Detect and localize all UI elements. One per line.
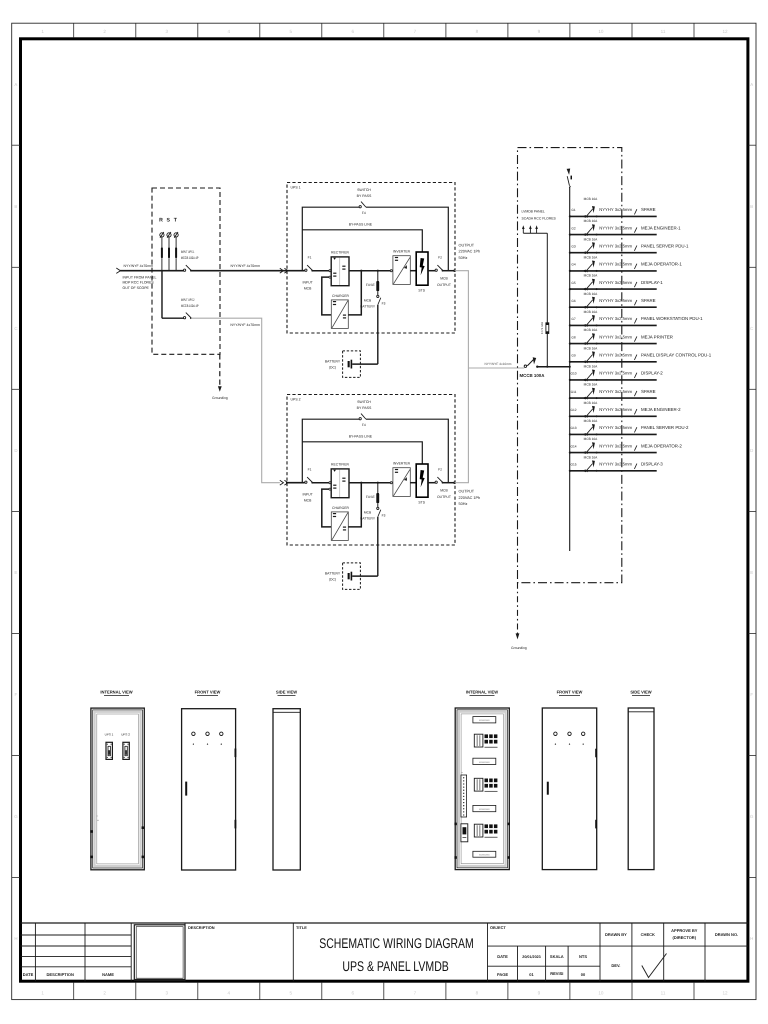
svg-text:MCCB 100A: MCCB 100A [520, 373, 546, 378]
svg-text:OUT OF SCOPE: OUT OF SCOPE [123, 286, 150, 290]
wire rectifier tap to charger [329, 276, 331, 278]
svg-text:F: F [15, 692, 18, 697]
grounding lead MDP [219, 354, 221, 387]
svg-text:G: G [14, 814, 18, 819]
svg-text:G3: G3 [571, 245, 575, 249]
breaker G10 [584, 379, 586, 381]
wire inverter to sts [410, 270, 415, 272]
node G8 on bus [569, 343, 571, 345]
svg-text:MCB: MCB [304, 287, 312, 291]
svg-text:F.1 S 16A: F.1 S 16A [540, 322, 544, 334]
wire F1 to rectifier [312, 482, 329, 484]
svg-text:FRONT VIEW: FRONT VIEW [195, 689, 221, 694]
label strip [473, 805, 496, 811]
fuse R [161, 237, 163, 247]
node G10 on bus [569, 379, 571, 381]
svg-text:5: 5 [290, 991, 293, 996]
svg-text:FRONT VIEW: FRONT VIEW [557, 689, 583, 694]
svg-text:S: S [166, 217, 170, 223]
svg-text:DESCRIPTION: DESCRIPTION [188, 925, 215, 930]
breaker MCCB 100A [524, 365, 526, 367]
breaker cluster [474, 824, 483, 837]
svg-text:12: 12 [722, 991, 728, 996]
svg-text:G4: G4 [571, 263, 575, 267]
svg-text:10: 10 [598, 29, 604, 34]
wire rectifier tap to charger [329, 488, 331, 490]
svg-text:INPUT UPS 1: INPUT UPS 1 [181, 250, 195, 254]
svg-text:MCB 16A: MCB 16A [584, 274, 599, 278]
svg-text:MCB 16A: MCB 16A [584, 455, 599, 459]
svg-text:REVISI: REVISI [550, 971, 563, 976]
svg-text:OUTPUT: OUTPUT [459, 490, 475, 494]
svg-text:10: 10 [598, 991, 604, 996]
svg-text:11: 11 [661, 991, 666, 996]
wire charger output to dc bus [348, 271, 361, 315]
node G3 on bus [569, 252, 571, 254]
wire UPS1 output gray [455, 271, 469, 368]
gland line [97, 819, 99, 821]
svg-text:BY PASS: BY PASS [357, 194, 372, 198]
phase slash G12 [634, 409, 637, 414]
svg-text:MCB 16A: MCB 16A [584, 365, 599, 369]
svg-text:G1: G1 [571, 208, 575, 212]
wire phase S leg [168, 258, 170, 271]
LVMDB cabinet side view [628, 708, 654, 870]
svg-text:MCB 16A: MCB 16A [584, 310, 599, 314]
svg-text:DATE: DATE [23, 972, 34, 977]
svg-text:NYYHY 3x2.5mm: NYYHY 3x2.5mm [599, 371, 632, 376]
svg-text:F2: F2 [438, 256, 442, 260]
wire F2 to output node [443, 270, 455, 272]
logo box [134, 925, 185, 980]
wire MCCB to bus [537, 366, 569, 368]
svg-text:MCB: MCB [440, 489, 448, 493]
phase symbol R [160, 233, 164, 237]
node G7 on bus [569, 324, 571, 326]
svg-text:SPARE: SPARE [641, 389, 656, 394]
svg-text:MCB 16A: MCB 16A [584, 401, 599, 405]
svg-text:UPS & PANEL LVMDB: UPS & PANEL LVMDB [342, 958, 449, 974]
MDP panel dashed box [152, 188, 220, 354]
breaker module front [123, 742, 129, 759]
svg-text:UPS 2: UPS 2 [121, 732, 130, 736]
svg-text:PANEL SERVER PDU-1: PANEL SERVER PDU-1 [641, 244, 689, 249]
breaker module front [106, 742, 112, 759]
svg-text:UPS 2: UPS 2 [291, 397, 301, 401]
svg-text:G5: G5 [571, 281, 575, 285]
wire G5 [570, 288, 657, 290]
svg-text:PANEL SERVER PDU-2: PANEL SERVER PDU-2 [641, 425, 689, 430]
svg-text:NYYHY 3x2.5mm: NYYHY 3x2.5mm [599, 407, 632, 412]
label strip [473, 758, 496, 764]
wire MDP to UPS1 [191, 270, 305, 272]
svg-text:MCB 16A: MCB 16A [584, 328, 599, 332]
svg-text:G12: G12 [570, 408, 576, 412]
svg-text:BY-PASS LINE: BY-PASS LINE [349, 223, 373, 227]
svg-text:SIDE VIEW: SIDE VIEW [630, 689, 651, 694]
svg-text:8: 8 [476, 991, 479, 996]
svg-text:DISPLAY-1: DISPLAY-1 [641, 280, 663, 285]
svg-text:PANEL DISPLAY CONTROL PDU-1: PANEL DISPLAY CONTROL PDU-1 [641, 353, 712, 358]
svg-text:12: 12 [722, 29, 728, 34]
battery (DC) UPS 2 [343, 563, 361, 590]
wire scada riser [546, 233, 548, 323]
wire phase T leg [175, 258, 177, 271]
svg-text:OBJECT: OBJECT [490, 925, 506, 930]
svg-text:G14: G14 [570, 444, 576, 448]
switch F4 UPS 2 [359, 418, 361, 420]
wire charger output to dc bus [348, 483, 361, 527]
svg-text:SPARE: SPARE [641, 207, 656, 212]
wire junction chevrons UPS1 [280, 268, 284, 273]
svg-text:XXXXXXXX: XXXXXXXX [479, 761, 490, 764]
phase slash G2 [634, 227, 637, 232]
svg-text:NYY/NYF 4x16mm: NYY/NYF 4x16mm [485, 362, 512, 366]
wire phase R leg [161, 258, 163, 318]
svg-text:INPUT: INPUT [303, 280, 313, 284]
svg-text:220VAC 1Ph: 220VAC 1Ph [459, 250, 481, 254]
title block top line [21, 922, 748, 924]
svg-text:INVERTER: INVERTER [393, 250, 411, 254]
svg-text:G: G [750, 814, 754, 819]
wire junction chevrons UPS2 [280, 480, 284, 485]
svg-text:50Hz: 50Hz [459, 502, 468, 506]
wire G6 [570, 306, 657, 308]
svg-text:F4: F4 [362, 423, 366, 427]
svg-text:STS: STS [418, 288, 425, 292]
svg-text:NYYHY 3x2.5mm: NYYHY 3x2.5mm [599, 334, 632, 339]
wire G15 [570, 470, 657, 472]
svg-text:NYYHY 3x2.5mm: NYYHY 3x2.5mm [599, 207, 632, 212]
svg-text:MEJA OPERATOR-2: MEJA OPERATOR-2 [641, 443, 682, 448]
UPS 1 dashed box [287, 183, 455, 334]
phase slash G1 [634, 209, 637, 214]
svg-text:11: 11 [661, 29, 666, 34]
svg-text:FUSE: FUSE [366, 283, 376, 287]
incoming breaker on bus top [567, 176, 569, 186]
cabinet hinges [90, 830, 92, 833]
breaker G11 [584, 397, 586, 399]
breaker G3 [584, 252, 586, 254]
wire feeder to switch [120, 270, 184, 272]
svg-text:E: E [14, 570, 17, 575]
LVMDB panel dash-dot box [518, 148, 622, 583]
svg-text:BATTERY: BATTERY [325, 360, 341, 364]
title cell [292, 923, 294, 981]
svg-text:MEJA PRINTER: MEJA PRINTER [641, 334, 673, 339]
wire sts to F2 [428, 270, 435, 272]
svg-text:FUSE: FUSE [366, 495, 376, 499]
svg-text:MCB 16A: MCB 16A [584, 292, 599, 296]
svg-text:3: 3 [166, 991, 169, 996]
phase slash G3 [634, 246, 637, 251]
fuse battery UPS 1 [377, 270, 379, 272]
svg-text:CHECK: CHECK [641, 932, 655, 937]
node G6 on bus [569, 306, 571, 308]
svg-text:RECTIFIER: RECTIFIER [331, 463, 349, 467]
wire G13 [570, 433, 657, 435]
phase slash G11 [634, 391, 637, 396]
svg-text:G2: G2 [571, 226, 575, 230]
svg-text:NYYHY 3x2.5mm: NYYHY 3x2.5mm [599, 244, 632, 249]
svg-text:MCB 16A: MCB 16A [584, 346, 599, 350]
svg-text:SIDE VIEW: SIDE VIEW [276, 689, 297, 694]
description cell [184, 923, 186, 981]
phase slash G6 [634, 300, 637, 305]
wire battery to fuse riser [352, 363, 378, 365]
node G5 on bus [569, 288, 571, 290]
wire F1 to rectifier [312, 270, 329, 272]
svg-text:MCB: MCB [440, 277, 448, 281]
svg-text:XXXXXXXX: XXXXXXXX [479, 854, 490, 857]
phase slash G15 [634, 464, 637, 469]
wire inverter to sts [410, 482, 415, 484]
incoming feeder arrow [116, 268, 120, 273]
battery (DC) UPS 1 [343, 351, 361, 378]
svg-text:G11: G11 [571, 390, 577, 394]
svg-text:SWITCH: SWITCH [357, 400, 371, 404]
UPS cabinet side view [273, 709, 300, 870]
static transfer switch STS UPS 2 [416, 464, 428, 497]
svg-text:SCADA RCC FLORES: SCADA RCC FLORES [522, 216, 557, 220]
svg-text:A: A [750, 82, 753, 87]
svg-text:DRAWN NO.: DRAWN NO. [715, 932, 738, 937]
breaker G2 [584, 234, 586, 236]
node G14 on bus [569, 452, 571, 454]
svg-text:3: 3 [166, 29, 169, 34]
label strip [473, 717, 496, 723]
svg-text:INPUT: INPUT [303, 492, 313, 496]
wire G11 [570, 397, 657, 399]
wire combined to LVMDB [468, 367, 524, 369]
svg-text:NTS: NTS [579, 954, 587, 959]
svg-text:(DIRECTOR): (DIRECTOR) [673, 935, 697, 940]
fuse battery UPS 2 [377, 482, 379, 484]
svg-text:(DC): (DC) [329, 578, 336, 582]
breaker G13 [584, 433, 586, 435]
svg-text:OUTPUT: OUTPUT [437, 495, 451, 499]
wire UPS2 output gray [455, 368, 469, 483]
switch INPUT UPS 1 [184, 269, 186, 271]
svg-text:INTERNAL VIEW: INTERNAL VIEW [100, 689, 132, 694]
svg-text:CHARGER: CHARGER [332, 506, 350, 510]
node G2 on bus [569, 234, 571, 236]
UPS cabinet front view [182, 709, 236, 870]
svg-text:G10: G10 [570, 372, 576, 376]
output node UPS 1 [453, 269, 456, 272]
svg-text:F2: F2 [438, 468, 442, 472]
phase slash G10 [634, 373, 637, 378]
svg-text:BY-PASS LINE: BY-PASS LINE [349, 435, 373, 439]
output node UPS 2 [453, 481, 456, 484]
ruler row ticks [12, 144, 20, 146]
svg-text:XXXXXXXX: XXXXXXXX [479, 719, 490, 722]
fuse F.1 [546, 323, 549, 334]
wire rectifier to inverter [349, 270, 390, 272]
svg-text:NYY/NYF 4x70mm: NYY/NYF 4x70mm [231, 264, 261, 268]
svg-text:DATE: DATE [497, 954, 508, 959]
wire G10 [570, 379, 657, 381]
phase slash G7 [634, 318, 637, 323]
svg-text:1: 1 [41, 991, 44, 996]
wire bypass top line [302, 419, 359, 483]
svg-text:UPS 1: UPS 1 [291, 185, 301, 189]
drawn by / check / approve columns [599, 923, 601, 981]
phase slash G14 [634, 445, 637, 450]
ruler column ticks [73, 23, 75, 37]
wire battery to fuse riser [352, 575, 378, 577]
svg-text:F1: F1 [308, 256, 312, 260]
svg-text:MCB: MCB [304, 499, 312, 503]
svg-text:H: H [750, 936, 753, 941]
breaker cluster [474, 778, 483, 791]
switch F3 UPS 2 [377, 507, 379, 509]
svg-text:BATTERY: BATTERY [360, 305, 376, 309]
static transfer switch STS UPS 1 [416, 252, 428, 285]
wire to battery [377, 517, 379, 577]
svg-text:2: 2 [103, 991, 106, 996]
LVMDB cabinet internal view [455, 708, 509, 870]
svg-text:BATTERY: BATTERY [360, 517, 376, 521]
phase slash G8 [634, 336, 637, 341]
svg-text:Grounding: Grounding [212, 396, 228, 400]
svg-text:NAME: NAME [102, 972, 114, 977]
svg-text:NYYHY 3x2.5mm: NYYHY 3x2.5mm [599, 316, 632, 321]
fuse T [175, 237, 177, 247]
wire G1 [570, 215, 657, 217]
LVMDB cabinet front view [542, 708, 596, 870]
svg-text:INPUT UPS 2: INPUT UPS 2 [181, 298, 195, 302]
svg-text:6: 6 [352, 29, 355, 34]
svg-text:NYYHY 3x2.5mm: NYYHY 3x2.5mm [599, 298, 632, 303]
wire UPS2 entry segment [286, 482, 305, 484]
breaker G8 [584, 343, 586, 345]
bus vertical [569, 187, 571, 552]
wire G12 [570, 415, 657, 417]
wire rectifier to inverter [349, 482, 390, 484]
svg-text:BY PASS: BY PASS [357, 406, 372, 410]
svg-text:MCB 16A: MCB 16A [584, 437, 599, 441]
phase symbol T [174, 233, 178, 237]
breaker G14 [584, 452, 586, 454]
svg-text:xx: xx [96, 815, 98, 817]
svg-text:MCB: MCB [364, 299, 372, 303]
object cell [487, 923, 489, 981]
svg-text:NYYHY 3x2.5mm: NYYHY 3x2.5mm [599, 443, 632, 448]
svg-text:MDP RCC FLORES: MDP RCC FLORES [123, 281, 155, 285]
svg-text:NYYHY 3x2.5mm: NYYHY 3x2.5mm [599, 389, 632, 394]
svg-text:MCCB 100A 4P: MCCB 100A 4P [181, 304, 199, 308]
svg-text:LVMDB PANEL: LVMDB PANEL [522, 210, 545, 214]
svg-text:220VAC 1Ph: 220VAC 1Ph [459, 496, 481, 500]
node G15 on bus [569, 470, 571, 472]
svg-text:NYYHY 3x2.5mm: NYYHY 3x2.5mm [599, 262, 632, 267]
grounding lead LVMDB [517, 583, 519, 634]
svg-text:4: 4 [228, 991, 231, 996]
svg-text:F4: F4 [362, 211, 366, 215]
svg-text:5: 5 [290, 29, 293, 34]
svg-text:UPS 1: UPS 1 [105, 732, 114, 736]
svg-text:F3: F3 [382, 301, 386, 305]
label strip [473, 851, 496, 857]
svg-text:7: 7 [414, 991, 417, 996]
svg-text:TITLE: TITLE [296, 925, 307, 930]
svg-text:A: A [14, 82, 17, 87]
switch INPUT UPS 2 [184, 317, 186, 319]
svg-text:C: C [750, 326, 753, 331]
svg-text:7: 7 [414, 29, 417, 34]
svg-text:2: 2 [103, 29, 106, 34]
node G11 on bus [569, 397, 571, 399]
svg-text:NYYHY 3x2.5mm: NYYHY 3x2.5mm [599, 462, 632, 467]
svg-text:CHARGER: CHARGER [332, 294, 350, 298]
svg-text:B: B [750, 204, 753, 209]
svg-text:DESCRIPTION: DESCRIPTION [47, 972, 74, 977]
node G1 on bus [569, 215, 571, 217]
svg-text:G13: G13 [570, 426, 576, 430]
svg-text:(DC): (DC) [329, 366, 336, 370]
breaker G7 [584, 324, 586, 326]
breaker G12 [584, 415, 586, 417]
svg-text:PANEL WORKSTATION PDU-1: PANEL WORKSTATION PDU-1 [641, 316, 703, 321]
fuse S [168, 237, 170, 247]
svg-text:G9: G9 [571, 354, 575, 358]
svg-text:D: D [750, 448, 753, 453]
svg-text:NYYHY 3x2.5mm: NYYHY 3x2.5mm [599, 353, 632, 358]
phase slash G5 [634, 282, 637, 287]
wire G2 [570, 234, 657, 236]
svg-text:INVERTER: INVERTER [393, 462, 411, 466]
cabinet hinges [454, 823, 456, 826]
breaker G6 [584, 306, 586, 308]
svg-text:F3: F3 [382, 513, 386, 517]
svg-text:00: 00 [581, 972, 586, 977]
svg-text:MCB: MCB [364, 511, 372, 515]
svg-text:Grounding: Grounding [511, 646, 527, 650]
svg-text:DISPLAY-2: DISPLAY-2 [641, 371, 663, 376]
svg-text:RECTIFIER: RECTIFIER [331, 251, 349, 255]
svg-text:E: E [750, 570, 753, 575]
terminal strip [461, 775, 467, 817]
svg-text:MCB 16A: MCB 16A [584, 383, 599, 387]
svg-text:G6: G6 [571, 299, 575, 303]
svg-text:MCB 16A: MCB 16A [584, 219, 599, 223]
svg-text:BATTERY: BATTERY [325, 572, 341, 576]
wire by-pass second line [302, 230, 422, 252]
svg-text:APPROVE BY: APPROVE BY [671, 928, 698, 933]
phase slash G4 [634, 264, 637, 269]
svg-text:MCB 16A: MCB 16A [584, 256, 599, 260]
phase symbol S [167, 233, 171, 237]
node G12 on bus [569, 415, 571, 417]
svg-text:9: 9 [538, 29, 541, 34]
node G13 on bus [569, 433, 571, 435]
UPS cabinet internal view [91, 708, 144, 870]
svg-text:F1: F1 [308, 468, 312, 472]
svg-text:NYYHY 3x2.5mm: NYYHY 3x2.5mm [599, 280, 632, 285]
svg-text:SKALA: SKALA [550, 954, 564, 959]
wire drop to input 2 [161, 271, 163, 319]
wire bypass top line [302, 207, 359, 271]
small breaker lower left [461, 824, 468, 842]
svg-text:1: 1 [41, 29, 44, 34]
svg-text:01: 01 [529, 972, 534, 977]
breaker G15 [584, 470, 586, 472]
svg-text:MCB 16A: MCB 16A [584, 419, 599, 423]
svg-text:20/01/2023: 20/01/2023 [522, 955, 540, 959]
svg-text:NYY/NYF 4x70mm: NYY/NYF 4x70mm [124, 264, 154, 268]
breaker G4 [584, 270, 586, 272]
